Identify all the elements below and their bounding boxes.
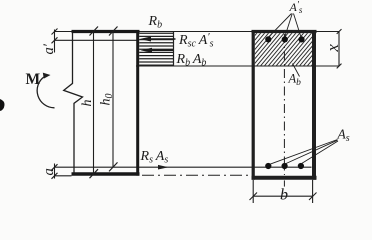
svg-text:M: M <box>26 71 41 88</box>
svg-text:a′: a′ <box>41 43 57 54</box>
svg-text:x: x <box>323 44 342 53</box>
svg-text:Rs As: Rs As <box>140 149 169 166</box>
svg-text:b: b <box>280 186 288 203</box>
svg-text:h: h <box>80 100 95 107</box>
svg-text:a: a <box>41 168 57 175</box>
